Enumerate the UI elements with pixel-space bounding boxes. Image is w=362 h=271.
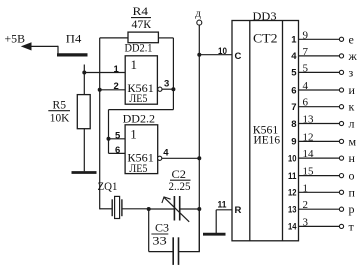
wire node A to DD2.1 pin1: [84, 72, 125, 74]
wire output н: [299, 157, 340, 159]
wire to DD2.1 pin2: [100, 89, 126, 91]
svg-text:6: 6: [291, 85, 296, 96]
svg-text:R: R: [235, 205, 242, 216]
wire output р: [299, 208, 340, 210]
svg-text:1: 1: [131, 57, 138, 72]
svg-text:R5: R5: [53, 98, 67, 112]
wire node to C2 left plate: [149, 208, 175, 210]
junction to pin10: [197, 53, 201, 57]
svg-text:5: 5: [291, 68, 297, 79]
junction pin3/R4: [171, 87, 175, 91]
wire C2 right plate to bus: [180, 208, 200, 210]
svg-text:CT2: CT2: [253, 31, 278, 46]
resistor R4: [128, 32, 158, 43]
svg-text:10: 10: [288, 153, 297, 164]
wire R5 to ground: [83, 129, 85, 172]
svg-text:8: 8: [291, 119, 296, 130]
svg-text:р: р: [349, 202, 355, 216]
terminal circle т: [339, 224, 343, 228]
wire node d vertical bus: [198, 25, 200, 251]
counter DD3 body: [232, 21, 299, 241]
svg-text:11: 11: [288, 171, 297, 182]
wire crystal to C2/C3 node: [122, 208, 149, 210]
svg-text:1: 1: [291, 35, 297, 46]
svg-text:10K: 10K: [50, 111, 70, 125]
svg-text:п: п: [349, 185, 356, 199]
svg-text:и: и: [349, 83, 356, 97]
svg-text:м: м: [349, 134, 357, 148]
wire DD2.1 pin3 output: [162, 88, 173, 90]
terminal circle з: [339, 70, 343, 74]
capacitor C2 trimmer arrow: [164, 198, 189, 222]
svg-text:10: 10: [218, 46, 227, 57]
svg-text:н: н: [349, 151, 356, 165]
svg-text:ЛЕ5: ЛЕ5: [129, 91, 147, 105]
svg-text:13: 13: [288, 205, 297, 216]
svg-text:R4: R4: [133, 4, 149, 18]
svg-text:12: 12: [288, 188, 297, 199]
svg-text:4: 4: [291, 51, 297, 62]
svg-text:3: 3: [164, 78, 169, 89]
wire output з: [299, 71, 340, 73]
wire output к: [299, 106, 340, 108]
svg-text:2: 2: [114, 81, 119, 92]
svg-text:ИЕ16: ИЕ16: [254, 132, 281, 146]
junction crystal/C2/C3: [147, 207, 151, 211]
counter DD3 inner left column line: [249, 21, 251, 241]
counter DD3 inner right column line: [282, 21, 284, 241]
svg-text:+5В: +5В: [5, 32, 26, 46]
svg-text:1: 1: [114, 64, 120, 75]
node d terminal circle: [197, 20, 202, 25]
terminal circle р: [339, 207, 343, 211]
junction bus/C2/C3 right: [197, 207, 201, 211]
svg-text:ж: ж: [348, 49, 358, 63]
terminal circle п: [339, 190, 343, 194]
resistor R5: [77, 95, 90, 129]
terminal circle е: [339, 37, 343, 41]
svg-text:2..25: 2..25: [169, 179, 191, 193]
terminal circle ж: [339, 54, 343, 58]
ground under R input: [203, 233, 226, 236]
capacitor C3 left plate: [172, 237, 174, 265]
svg-text:т: т: [349, 219, 355, 233]
wire R4 left lead: [100, 37, 128, 39]
capacitor C3 right plate: [178, 237, 180, 265]
svg-text:C: C: [235, 51, 242, 62]
svg-text:о: о: [349, 169, 355, 183]
wire DD2.2 pin4 output: [162, 157, 200, 159]
junction node A: [82, 71, 86, 75]
wire to DD2.2 pin5: [109, 138, 126, 140]
capacitor C2 right plate: [179, 196, 181, 221]
svg-text:е: е: [349, 32, 354, 46]
wire output л: [299, 123, 340, 125]
wire C3 branch left side: [148, 209, 150, 252]
svg-text:1: 1: [130, 127, 137, 142]
junction pin4 / node d line: [197, 156, 201, 160]
wire R to ground stem: [215, 210, 217, 233]
wire net: R4 left / DD2.1 pin2 / ZQ1 vertical: [99, 38, 101, 210]
wire C3 right plate to bus corner: [179, 251, 200, 253]
wire output о: [299, 175, 340, 177]
gate DD2.2 output bubble: [158, 156, 162, 160]
crystal ZQ1 left plate: [111, 199, 113, 216]
svg-text:11: 11: [218, 199, 228, 210]
svg-text:DD2.2: DD2.2: [123, 111, 156, 125]
crystal ZQ1 right plate: [121, 199, 123, 216]
terminal circle и: [339, 88, 343, 92]
svg-text:47К: 47К: [132, 17, 152, 31]
terminal circle к: [339, 105, 343, 109]
svg-text:з: з: [349, 65, 354, 79]
wire output ж: [299, 55, 340, 57]
wire to DD3 C input pin10: [199, 54, 232, 56]
crystal ZQ1 body: [115, 196, 120, 218]
ground under R5: [72, 171, 97, 174]
svg-text:DD2.1: DD2.1: [125, 40, 153, 54]
svg-text:к: к: [349, 100, 355, 114]
wire output м: [299, 140, 340, 142]
junction at DD2.2 pin5: [107, 137, 111, 141]
svg-text:ЛЕ5: ЛЕ5: [129, 161, 147, 175]
gate DD2.2 body: [125, 125, 158, 174]
svg-text:П4: П4: [66, 31, 82, 45]
wire output е: [299, 38, 340, 40]
wire to DD2.2 pin6: [109, 152, 126, 154]
terminal circle л: [339, 121, 343, 125]
svg-text:33: 33: [152, 233, 167, 247]
svg-text:4: 4: [163, 147, 169, 158]
arrow to +5V: [21, 42, 32, 50]
svg-text:ZQ1: ZQ1: [98, 179, 118, 193]
wire output п: [299, 191, 340, 193]
terminal circle о: [339, 174, 343, 178]
wire to crystal left: [100, 208, 113, 210]
wire from +5V arrow: [30, 45, 58, 47]
svg-text:6: 6: [115, 145, 120, 156]
contact P4 bar: [57, 53, 88, 56]
svg-text:5: 5: [115, 130, 121, 141]
terminal circle м: [339, 139, 343, 143]
gate DD2.1 body: [125, 56, 157, 104]
node A stub below P4: [83, 65, 85, 95]
wire R4 right lead: [158, 37, 173, 39]
capacitor C2 left plate: [173, 196, 175, 221]
svg-text:9: 9: [291, 137, 296, 148]
wire DD3 R input pin11: [216, 209, 232, 211]
terminal circle н: [339, 156, 343, 160]
svg-text:л: л: [349, 117, 355, 131]
svg-text:д: д: [195, 7, 201, 19]
wire output и: [299, 89, 340, 91]
junction on pin2 wire: [98, 88, 102, 92]
svg-text:14: 14: [288, 222, 297, 233]
svg-text:7: 7: [291, 102, 296, 113]
gate DD2.1 output bubble: [158, 87, 162, 91]
wire pin3 to DD2.2 inputs: [172, 89, 174, 109]
wire output т: [299, 225, 340, 227]
